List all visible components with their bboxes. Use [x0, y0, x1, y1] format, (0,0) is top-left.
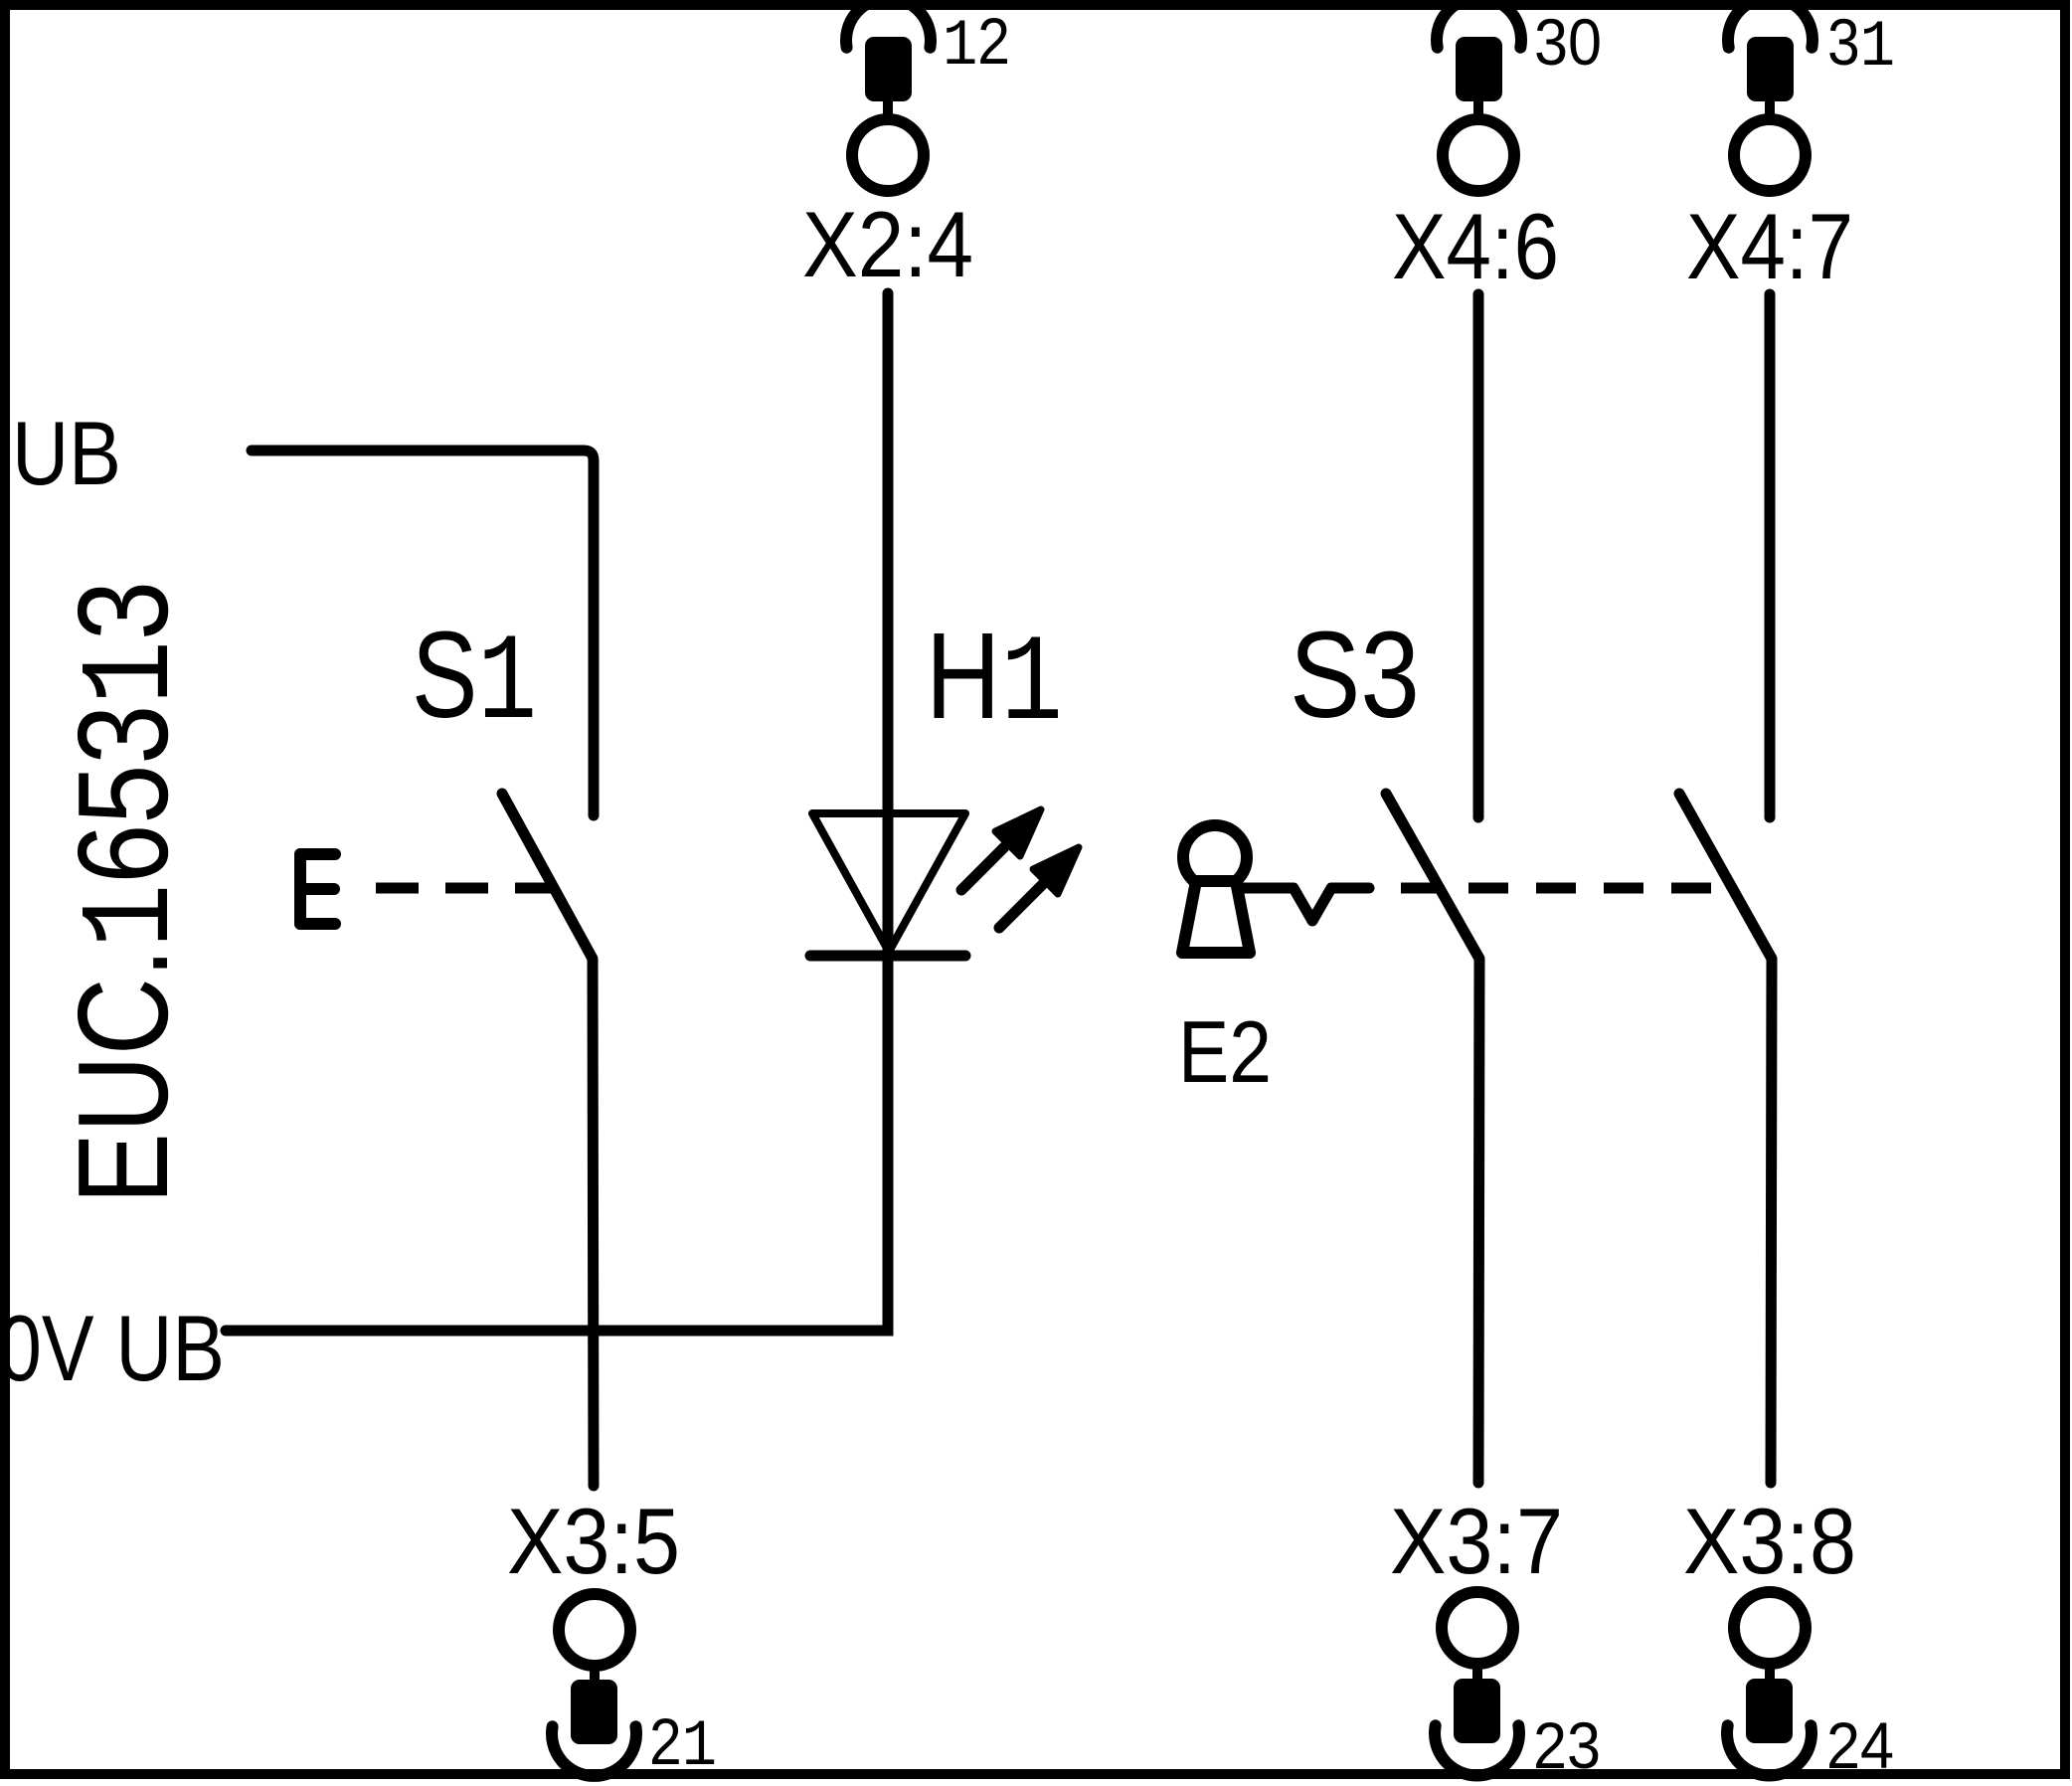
actuator dashed line S3 — [1401, 883, 1732, 894]
key actuator E2 — [1182, 825, 1369, 953]
switch S3 contact b — [1679, 794, 1772, 1483]
wire UB to S1 — [252, 450, 594, 815]
LED H1 — [810, 809, 1079, 956]
wire X4:6 down — [1473, 294, 1484, 817]
terminal X3:5 — [552, 1594, 636, 1776]
switch S3 contact a — [1386, 794, 1479, 1483]
switch S1 — [502, 794, 594, 1486]
svg-text:H1: H1 — [926, 609, 1063, 755]
svg-text:EUC.165313: EUC.165313 — [52, 581, 206, 1204]
terminal X4:7 — [1728, 0, 1813, 191]
svg-text:X3:8: X3:8 — [1683, 1489, 1856, 1593]
svg-text:24: 24 — [1826, 1708, 1894, 1782]
terminal X4:6 — [1437, 0, 1521, 191]
actuator E — [300, 854, 335, 924]
svg-text:23: 23 — [1533, 1708, 1601, 1782]
svg-text:21: 21 — [649, 1704, 717, 1784]
terminal X3:7 — [1435, 1592, 1519, 1775]
wire X4:7 down — [1765, 294, 1776, 817]
svg-text:X4:6: X4:6 — [1392, 194, 1559, 298]
svg-text:30: 30 — [1534, 5, 1602, 79]
svg-text:E2: E2 — [1178, 1002, 1272, 1101]
svg-text:X3:7: X3:7 — [1390, 1489, 1563, 1593]
svg-text:S3: S3 — [1290, 608, 1420, 744]
svg-text:12: 12 — [943, 4, 1010, 84]
svg-text:31: 31 — [1827, 5, 1895, 85]
terminal X3:8 — [1727, 1592, 1812, 1775]
svg-text:X2:4: X2:4 — [802, 192, 973, 296]
wire X2:4 to 0V UB — [226, 293, 888, 1331]
svg-text:X3:5: X3:5 — [507, 1489, 680, 1593]
svg-text:UB: UB — [12, 404, 121, 504]
svg-text:S1: S1 — [412, 608, 537, 754]
actuator dashed link E to S1 — [376, 883, 557, 894]
terminal X2:4 — [846, 0, 931, 191]
svg-text:X4:7: X4:7 — [1686, 194, 1853, 298]
svg-text:0V UB: 0V UB — [0, 1296, 225, 1400]
